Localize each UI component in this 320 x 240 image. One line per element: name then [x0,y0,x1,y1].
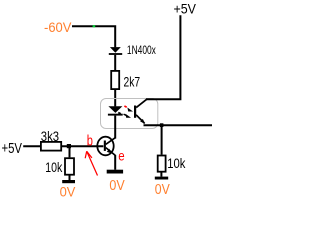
svg-text:10k: 10k [45,159,63,175]
svg-text:10k: 10k [167,155,186,171]
svg-text:2k7: 2k7 [124,73,141,89]
svg-text:-60V: -60V [44,19,72,35]
svg-text:b: b [87,133,93,150]
svg-text:0V: 0V [155,182,170,198]
svg-text:e: e [118,149,124,165]
svg-text:+5V: +5V [2,141,23,157]
svg-text:0V: 0V [60,183,76,198]
svg-text:+5V: +5V [174,0,197,16]
svg-text:0V: 0V [109,178,125,194]
svg-text:1N400x: 1N400x [127,44,156,57]
